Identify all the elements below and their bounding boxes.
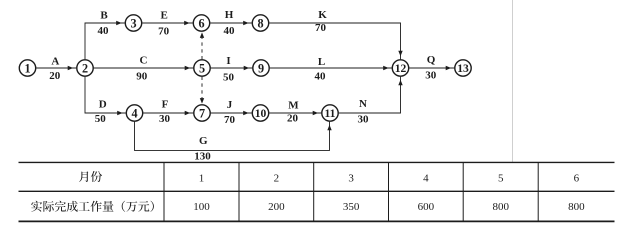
svg-text:F: F xyxy=(162,99,169,111)
svg-text:C: C xyxy=(140,55,148,67)
svg-text:2: 2 xyxy=(274,172,280,184)
svg-text:40: 40 xyxy=(315,71,327,83)
svg-text:50: 50 xyxy=(95,113,107,125)
svg-text:E: E xyxy=(161,9,168,21)
svg-text:1: 1 xyxy=(199,172,205,184)
svg-text:4: 4 xyxy=(131,107,137,121)
svg-text:M: M xyxy=(288,99,299,111)
svg-text:30: 30 xyxy=(159,113,171,125)
svg-text:6: 6 xyxy=(574,172,580,184)
svg-text:10: 10 xyxy=(255,107,267,120)
svg-text:D: D xyxy=(99,99,107,111)
svg-text:12: 12 xyxy=(395,62,407,75)
svg-text:800: 800 xyxy=(492,201,509,213)
svg-text:H: H xyxy=(225,9,234,21)
svg-text:8: 8 xyxy=(257,17,263,31)
svg-text:9: 9 xyxy=(258,62,264,76)
svg-text:350: 350 xyxy=(343,201,360,213)
svg-text:A: A xyxy=(51,55,59,67)
svg-text:7: 7 xyxy=(199,107,205,121)
svg-text:40: 40 xyxy=(224,25,236,37)
svg-text:6: 6 xyxy=(198,17,204,31)
svg-text:11: 11 xyxy=(325,107,336,120)
svg-text:30: 30 xyxy=(425,70,437,82)
svg-text:50: 50 xyxy=(223,71,235,83)
svg-text:100: 100 xyxy=(193,201,210,213)
svg-text:200: 200 xyxy=(268,201,285,213)
svg-text:4: 4 xyxy=(423,172,429,184)
svg-text:B: B xyxy=(100,10,108,22)
svg-text:5: 5 xyxy=(498,172,504,184)
svg-text:J: J xyxy=(227,99,233,111)
svg-text:N: N xyxy=(359,98,367,110)
svg-text:5: 5 xyxy=(199,62,205,76)
svg-text:1: 1 xyxy=(24,62,30,76)
svg-text:3: 3 xyxy=(130,17,136,31)
svg-text:70: 70 xyxy=(158,25,170,37)
svg-text:70: 70 xyxy=(224,114,236,126)
svg-text:3: 3 xyxy=(348,172,354,184)
svg-text:2: 2 xyxy=(82,62,88,76)
svg-text:Q: Q xyxy=(427,54,436,66)
svg-text:70: 70 xyxy=(315,22,327,34)
svg-text:20: 20 xyxy=(287,113,299,125)
svg-text:30: 30 xyxy=(358,114,370,126)
svg-text:130: 130 xyxy=(194,150,211,162)
svg-text:20: 20 xyxy=(49,70,61,82)
svg-text:I: I xyxy=(226,55,230,67)
svg-text:G: G xyxy=(199,135,208,147)
svg-text:40: 40 xyxy=(98,25,110,37)
svg-text:K: K xyxy=(318,9,327,21)
svg-text:13: 13 xyxy=(457,62,469,75)
svg-text:800: 800 xyxy=(568,201,585,213)
svg-text:90: 90 xyxy=(136,70,148,82)
svg-text:L: L xyxy=(318,56,325,68)
svg-text:600: 600 xyxy=(418,201,435,213)
